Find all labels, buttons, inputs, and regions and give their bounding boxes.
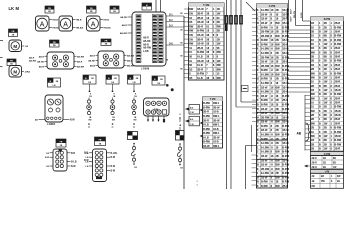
svg-text:8W: 8W bbox=[311, 51, 315, 54]
svg-text:1-B: 1-B bbox=[85, 166, 89, 168]
svg-text:BW: BW bbox=[276, 65, 281, 68]
svg-text:2B: 2B bbox=[311, 60, 314, 63]
svg-text:2B: 2B bbox=[323, 162, 326, 164]
svg-text:2B-R: 2B-R bbox=[334, 85, 340, 88]
svg-text:B-RW: B-RW bbox=[197, 72, 204, 76]
svg-text:2B: 2B bbox=[324, 143, 327, 146]
svg-text:1B-W: 1B-W bbox=[282, 73, 289, 76]
splice SP1 bbox=[128, 132, 138, 140]
svg-text:B-RW: B-RW bbox=[282, 35, 289, 38]
svg-text:1B-W: 1B-W bbox=[197, 20, 204, 24]
svg-text:BW: BW bbox=[276, 86, 281, 89]
svg-text:1B-W: 1B-W bbox=[334, 110, 341, 113]
svg-text:8-LBW: 8-LBW bbox=[261, 134, 270, 137]
relay K1 bbox=[37, 52, 84, 69]
svg-text:B-RW: B-RW bbox=[203, 141, 210, 144]
svg-text:C-PM: C-PM bbox=[269, 5, 275, 8]
svg-text:2B: 2B bbox=[276, 31, 279, 34]
svg-text:1B: 1B bbox=[217, 7, 220, 11]
svg-text:AB-RD: AB-RD bbox=[88, 59, 95, 62]
svg-text:2B: 2B bbox=[311, 118, 314, 121]
svg-text:FB: FB bbox=[53, 42, 56, 44]
svg-text:BW: BW bbox=[276, 164, 281, 167]
svg-text:RW: RW bbox=[217, 76, 222, 80]
svg-text:B-RW: B-RW bbox=[282, 108, 289, 111]
svg-text:1B-W: 1B-W bbox=[261, 129, 268, 132]
svg-text:1B-W: 1B-W bbox=[261, 121, 268, 124]
svg-text:B-RW: B-RW bbox=[334, 26, 341, 29]
svg-text:1-B: 1-B bbox=[85, 153, 89, 155]
svg-text:2B-RW: 2B-RW bbox=[261, 35, 270, 38]
svg-text:1-B: 1-B bbox=[46, 153, 50, 155]
svg-text:2B: 2B bbox=[312, 176, 315, 178]
svg-text:B-RW: B-RW bbox=[282, 151, 289, 154]
wire tick bbox=[0, 58, 3, 67]
svg-text:M: M bbox=[13, 44, 17, 49]
svg-text:B-RW: B-RW bbox=[334, 131, 341, 134]
connector X1 pins bbox=[136, 14, 163, 62]
svg-text:8B: 8B bbox=[324, 114, 327, 117]
svg-text:2B: 2B bbox=[324, 127, 327, 130]
svg-text:2B: 2B bbox=[276, 39, 279, 42]
svg-text:1W: 1W bbox=[189, 37, 193, 41]
svg-text:AB-R: AB-R bbox=[90, 54, 96, 57]
svg-text:B-RW: B-RW bbox=[197, 50, 204, 54]
svg-text:T-VM: T-VM bbox=[203, 3, 209, 7]
svg-text:B-RW: B-RW bbox=[334, 60, 341, 63]
svg-text:1W: 1W bbox=[189, 12, 193, 16]
svg-text:1B-W: 1B-W bbox=[261, 86, 268, 89]
svg-text:AB-PM: AB-PM bbox=[286, 11, 289, 18]
svg-text:2B-W: 2B-W bbox=[213, 136, 220, 139]
svg-text:8W: 8W bbox=[112, 119, 115, 121]
table T2 side labels bbox=[290, 8, 293, 21]
svg-text:BW: BW bbox=[276, 48, 281, 51]
wire bundle W2 bbox=[286, 0, 311, 30]
svg-text:HB-B: HB-B bbox=[53, 20, 59, 22]
table T1 side label bbox=[225, 24, 228, 31]
svg-text:8B: 8B bbox=[324, 139, 327, 142]
svg-text:8W: 8W bbox=[89, 119, 92, 121]
lamp chain L5 bbox=[177, 143, 183, 169]
svg-text:AB-R: AB-R bbox=[122, 24, 128, 27]
svg-text:8-LBW: 8-LBW bbox=[261, 73, 270, 76]
lamp chain L4 bbox=[131, 143, 137, 169]
svg-text:2B: 2B bbox=[217, 29, 220, 33]
svg-text:2B-R: 2B-R bbox=[197, 24, 203, 28]
svg-text:BW: BW bbox=[276, 134, 281, 137]
svg-text:B: B bbox=[319, 143, 321, 146]
svg-text:B-RW: B-RW bbox=[282, 69, 289, 72]
table T1 left stubs bbox=[184, 9, 189, 78]
svg-text:BW: BW bbox=[276, 159, 281, 162]
svg-text:8-LBW: 8-LBW bbox=[261, 91, 270, 94]
svg-text:2B-R: 2B-R bbox=[197, 16, 203, 20]
svg-text:1W: 1W bbox=[324, 97, 328, 100]
fuse box F2 bbox=[87, 6, 97, 13]
wire ladder W3 bbox=[288, 34, 311, 151]
svg-text:8-LB: 8-LB bbox=[203, 136, 209, 139]
svg-text:AB-R: AB-R bbox=[143, 37, 149, 40]
svg-text:L-BM-B: L-BM-B bbox=[47, 124, 56, 126]
svg-text:1B-W: 1B-W bbox=[334, 89, 341, 92]
svg-text:2B: 2B bbox=[276, 142, 279, 145]
svg-text:2B-R: 2B-R bbox=[334, 68, 340, 71]
svg-text:8B: 8B bbox=[324, 47, 327, 50]
svg-text:B-RW: B-RW bbox=[261, 138, 268, 141]
svg-text:2B: 2B bbox=[276, 129, 279, 132]
svg-text:B-RW: B-RW bbox=[282, 155, 289, 158]
svg-text:B-PM: B-PM bbox=[324, 18, 330, 21]
svg-text:AB-RW: AB-RW bbox=[120, 32, 127, 35]
svg-text:2B-R: 2B-R bbox=[282, 61, 288, 64]
svg-text:RW: RW bbox=[217, 24, 222, 28]
connector tag X5 bbox=[185, 105, 200, 115]
svg-text:1B: 1B bbox=[311, 47, 314, 50]
svg-text:1B: 1B bbox=[311, 89, 314, 92]
svg-text:BM-P: BM-P bbox=[291, 16, 293, 22]
svg-text:2B: 2B bbox=[311, 30, 314, 33]
svg-text:B: B bbox=[319, 30, 321, 33]
svg-text:2B: 2B bbox=[323, 167, 326, 169]
svg-text:2B-R: 2B-R bbox=[334, 97, 340, 100]
svg-text:B: B bbox=[257, 78, 259, 81]
svg-text:FB: FB bbox=[10, 61, 13, 63]
svg-text:1B-W: 1B-W bbox=[282, 116, 289, 119]
svg-text:BW: BW bbox=[276, 168, 281, 171]
svg-text:1B-W: 1B-W bbox=[282, 121, 289, 124]
svg-text:B-RW: B-RW bbox=[203, 115, 210, 118]
svg-text:1B-W: 1B-W bbox=[282, 159, 289, 162]
junction dot 2 bbox=[166, 84, 169, 87]
svg-text:2B-R: 2B-R bbox=[197, 46, 203, 50]
svg-text:B-RW: B-RW bbox=[282, 181, 289, 184]
svg-text:B-RW: B-RW bbox=[282, 168, 289, 171]
lamp chain L5 upper ticks bbox=[179, 114, 182, 131]
svg-text:B: B bbox=[319, 93, 321, 96]
svg-text:2B-RW: 2B-RW bbox=[261, 56, 270, 59]
svg-text:B-RW: B-RW bbox=[203, 102, 210, 105]
svg-text:8-LBW: 8-LBW bbox=[261, 48, 270, 51]
svg-text:FB: FB bbox=[113, 8, 116, 10]
svg-text:2B: 2B bbox=[276, 155, 279, 158]
svg-text:2B: 2B bbox=[276, 78, 279, 81]
svg-text:1-B: 1-B bbox=[88, 82, 92, 84]
wire stub W-J3 bbox=[112, 84, 114, 92]
svg-text:1W: 1W bbox=[324, 148, 328, 151]
svg-text:B-RW: B-RW bbox=[282, 164, 289, 167]
svg-text:B-RW: B-RW bbox=[282, 134, 289, 137]
svg-text:AB-RD: AB-RD bbox=[143, 40, 151, 43]
svg-text:B-RW: B-RW bbox=[334, 39, 341, 42]
svg-text:2B: 2B bbox=[276, 125, 279, 128]
svg-text:A: A bbox=[63, 21, 68, 28]
junction box J1 bbox=[48, 78, 61, 87]
svg-text:B-RW: B-RW bbox=[203, 128, 210, 131]
svg-text:A: A bbox=[40, 21, 45, 28]
connector X2 pins bbox=[147, 116, 165, 122]
svg-text:1-W: 1-W bbox=[190, 124, 194, 126]
svg-text:8W: 8W bbox=[311, 110, 315, 113]
svg-text:B-RW: B-RW bbox=[334, 93, 341, 96]
svg-text:8W: 8W bbox=[311, 135, 315, 138]
svg-text:B-B: B-B bbox=[71, 153, 75, 155]
svg-text:AB-B: AB-B bbox=[90, 64, 96, 67]
svg-text:18-B: 18-B bbox=[213, 111, 219, 114]
svg-text:2B-RW: 2B-RW bbox=[261, 116, 270, 119]
svg-text:2B-R: 2B-R bbox=[197, 67, 203, 71]
relay K2 bbox=[88, 51, 134, 68]
svg-text:1W: 1W bbox=[217, 42, 221, 46]
svg-text:1-B: 1-B bbox=[157, 83, 161, 85]
svg-text:M: M bbox=[13, 69, 17, 74]
ammeter A2 bbox=[59, 16, 83, 31]
svg-text:BW-1: BW-1 bbox=[213, 102, 220, 105]
svg-text:RW: RW bbox=[217, 63, 222, 67]
svg-text:B: B bbox=[257, 176, 259, 179]
svg-text:1B-W: 1B-W bbox=[261, 159, 268, 162]
svg-text:B-RW: B-RW bbox=[261, 181, 268, 184]
svg-text:2B: 2B bbox=[311, 127, 314, 130]
svg-text:AB-RD: AB-RD bbox=[37, 60, 44, 63]
svg-text:B-RW: B-RW bbox=[282, 172, 289, 175]
svg-text:FB: FB bbox=[12, 31, 15, 33]
svg-text:B: B bbox=[319, 72, 321, 75]
svg-text:18-B: 18-B bbox=[213, 128, 219, 131]
svg-text:1B-W: 1B-W bbox=[334, 114, 341, 117]
svg-text:B-RW: B-RW bbox=[261, 39, 268, 42]
svg-text:B-W: B-W bbox=[45, 157, 49, 159]
splice SP2 bbox=[176, 131, 185, 141]
svg-text:B-RW: B-RW bbox=[282, 176, 289, 179]
table T2 left stubs bbox=[252, 10, 257, 185]
svg-text:L-DB-M: L-DB-M bbox=[141, 68, 149, 70]
svg-text:B: B bbox=[319, 76, 321, 79]
svg-text:2B: 2B bbox=[324, 22, 327, 25]
svg-text:L-DB: L-DB bbox=[143, 51, 149, 53]
connector X1 top stubs bbox=[156, 0, 161, 12]
svg-text:1B: 1B bbox=[311, 22, 314, 25]
svg-text:2B-R: 2B-R bbox=[203, 119, 209, 122]
svg-text:RW: RW bbox=[189, 24, 194, 28]
svg-text:2B: 2B bbox=[324, 68, 327, 71]
svg-text:FB: FB bbox=[48, 8, 51, 10]
junction box J4 bbox=[128, 75, 141, 84]
svg-text:2B-R: 2B-R bbox=[334, 148, 340, 151]
connector X3 bbox=[45, 149, 89, 171]
svg-text:AB-RW: AB-RW bbox=[29, 60, 36, 63]
svg-text:8B: 8B bbox=[324, 93, 327, 96]
svg-text:B-RW: B-RW bbox=[334, 43, 341, 46]
svg-text:B: B bbox=[257, 91, 259, 94]
svg-text:B-RW: B-RW bbox=[334, 106, 341, 109]
svg-text:1B-W: 1B-W bbox=[334, 135, 341, 138]
svg-text:8-LB: 8-LB bbox=[197, 63, 203, 67]
svg-text:2B: 2B bbox=[311, 56, 314, 59]
svg-text:B-RW: B-RW bbox=[282, 65, 289, 68]
svg-text:B: B bbox=[257, 103, 259, 106]
svg-text:2B-R: 2B-R bbox=[334, 122, 340, 125]
lamp chain L2 bbox=[110, 94, 116, 128]
svg-text:HB-B: HB-B bbox=[76, 20, 82, 22]
svg-text:8B: 8B bbox=[324, 35, 327, 38]
svg-text:RW: RW bbox=[189, 29, 194, 33]
svg-text:FB: FB bbox=[99, 140, 102, 142]
title text LK M bbox=[9, 6, 20, 11]
wire stub W-J4 bbox=[133, 84, 135, 92]
svg-text:18-B: 18-B bbox=[213, 141, 219, 144]
svg-text:2B-R: 2B-R bbox=[334, 118, 340, 121]
svg-text:1B: 1B bbox=[189, 20, 192, 24]
svg-text:2B: 2B bbox=[276, 99, 279, 102]
svg-text:1-B: 1-B bbox=[46, 166, 50, 168]
svg-text:2B: 2B bbox=[324, 72, 327, 75]
label AB with brace bbox=[297, 123, 311, 141]
svg-text:AB-RW: AB-RW bbox=[143, 47, 152, 50]
svg-text:B-RW: B-RW bbox=[203, 106, 210, 109]
svg-text:B: B bbox=[257, 181, 259, 184]
svg-text:AB-RW: AB-RW bbox=[77, 55, 84, 58]
svg-text:2B: 2B bbox=[324, 60, 327, 63]
svg-text:2B: 2B bbox=[217, 20, 220, 24]
svg-text:1B-W: 1B-W bbox=[197, 42, 204, 46]
svg-text:BW: BW bbox=[276, 73, 281, 76]
svg-text:B: B bbox=[319, 148, 321, 151]
svg-text:HB-BA: HB-BA bbox=[76, 27, 83, 30]
svg-text:RW: RW bbox=[217, 50, 222, 54]
fuse box F4 bbox=[9, 29, 18, 37]
connector X1 left wires bbox=[120, 16, 132, 35]
svg-text:2B: 2B bbox=[276, 172, 279, 175]
svg-text:A: A bbox=[91, 21, 96, 28]
svg-text:2B: 2B bbox=[276, 138, 279, 141]
svg-text:B: B bbox=[257, 22, 259, 25]
svg-text:1B: 1B bbox=[189, 67, 192, 71]
svg-text:8B: 8B bbox=[324, 118, 327, 121]
svg-text:1W: 1W bbox=[324, 122, 328, 125]
svg-text:2B-R: 2B-R bbox=[282, 99, 288, 102]
svg-text:B: B bbox=[257, 39, 259, 42]
svg-text:B-RW: B-RW bbox=[282, 56, 289, 59]
svg-text:8B: 8B bbox=[324, 56, 327, 59]
lamp chain L1 bbox=[87, 94, 93, 128]
svg-text:2B: 2B bbox=[311, 148, 314, 151]
svg-text:B-RW: B-RW bbox=[261, 78, 268, 81]
svg-text:8-LBW: 8-LBW bbox=[261, 151, 270, 154]
junction box J3 bbox=[106, 75, 119, 84]
svg-text:2B-R: 2B-R bbox=[282, 91, 288, 94]
svg-text:B-RW: B-RW bbox=[334, 127, 341, 130]
svg-text:1W: 1W bbox=[217, 59, 221, 63]
svg-text:B: B bbox=[257, 108, 259, 111]
svg-text:2B-R: 2B-R bbox=[282, 138, 288, 141]
svg-text:B: B bbox=[257, 164, 259, 167]
svg-text:BW: BW bbox=[276, 22, 281, 25]
svg-text:1B-W: 1B-W bbox=[282, 112, 289, 115]
svg-text:2B: 2B bbox=[337, 181, 340, 183]
svg-text:HB-BA: HB-BA bbox=[104, 27, 111, 30]
svg-text:8-LBW: 8-LBW bbox=[261, 142, 270, 145]
connector table T4 bbox=[200, 97, 223, 148]
svg-text:1-W: 1-W bbox=[190, 112, 194, 114]
svg-text:B-LBL: B-LBL bbox=[111, 153, 118, 155]
svg-text:-DRA: -DRA bbox=[25, 71, 31, 74]
svg-text:8B: 8B bbox=[333, 162, 336, 164]
svg-text:1B: 1B bbox=[311, 64, 314, 67]
fuse box F8 bbox=[56, 139, 66, 147]
svg-text:AB-RW: AB-RW bbox=[77, 65, 84, 68]
svg-text:BW-1: BW-1 bbox=[213, 145, 220, 148]
svg-text:B-RW: B-RW bbox=[334, 143, 341, 146]
svg-text:B-RW: B-RW bbox=[282, 146, 289, 149]
svg-text:B-RW: B-RW bbox=[282, 125, 289, 128]
svg-text:1B-W: 1B-W bbox=[261, 176, 268, 179]
svg-text:1B-W: 1B-W bbox=[261, 164, 268, 167]
svg-text:8-LBW: 8-LBW bbox=[261, 9, 270, 12]
svg-text:B: B bbox=[319, 122, 321, 125]
svg-text:2B: 2B bbox=[276, 91, 279, 94]
svg-text:BW: BW bbox=[276, 176, 281, 179]
wire stub W-J2 bbox=[89, 84, 91, 92]
svg-text:2B: 2B bbox=[323, 158, 326, 160]
svg-text:BW: BW bbox=[276, 35, 281, 38]
svg-text:8-LBW: 8-LBW bbox=[261, 52, 270, 55]
junction box J2 bbox=[83, 75, 96, 84]
svg-text:2B-R: 2B-R bbox=[334, 81, 340, 84]
svg-text:1-B: 1-B bbox=[52, 85, 56, 87]
connector X1 net labels bbox=[143, 37, 152, 54]
svg-text:1B-W: 1B-W bbox=[261, 18, 268, 21]
svg-text:2B: 2B bbox=[324, 26, 327, 29]
svg-text:8W: 8W bbox=[311, 76, 315, 79]
svg-text:2B-R: 2B-R bbox=[282, 43, 288, 46]
svg-text:2B: 2B bbox=[311, 143, 314, 146]
connector table T3 bbox=[311, 17, 344, 152]
svg-text:1B-W: 1B-W bbox=[261, 61, 268, 64]
connector table T2 bbox=[257, 4, 290, 188]
svg-text:2B-R: 2B-R bbox=[197, 12, 203, 16]
svg-text:2B-R: 2B-R bbox=[312, 167, 318, 169]
svg-text:B: B bbox=[257, 116, 259, 119]
svg-text:1W: 1W bbox=[324, 89, 328, 92]
svg-text:2B: 2B bbox=[311, 85, 314, 88]
svg-text:8: 8 bbox=[179, 114, 180, 116]
svg-text:B-RW: B-RW bbox=[261, 185, 268, 188]
svg-text:1B-W: 1B-W bbox=[197, 7, 204, 11]
svg-text:2B-R: 2B-R bbox=[334, 51, 340, 54]
svg-text:AB-B: AB-B bbox=[39, 65, 45, 68]
svg-text:AB-RW: AB-RW bbox=[127, 54, 134, 57]
svg-text:2B: 2B bbox=[276, 9, 279, 12]
svg-text:B: B bbox=[319, 135, 321, 138]
svg-text:HB-B: HB-B bbox=[104, 20, 110, 22]
svg-text:B: B bbox=[319, 39, 321, 42]
svg-text:2B: 2B bbox=[324, 39, 327, 42]
svg-text:1B-W: 1B-W bbox=[282, 142, 289, 145]
junction dot bbox=[171, 88, 174, 91]
svg-text:1W: 1W bbox=[324, 43, 328, 46]
svg-text:FB: FB bbox=[105, 41, 108, 43]
fuse box F5 bbox=[50, 40, 60, 47]
svg-text:2B-RW: 2B-RW bbox=[261, 65, 270, 68]
svg-text:2B: 2B bbox=[276, 52, 279, 55]
svg-text:2B-R: 2B-R bbox=[334, 102, 340, 105]
svg-text:1-B: 1-B bbox=[85, 157, 89, 159]
fuse box F10 bbox=[142, 3, 152, 10]
svg-text:8-LB: 8-LB bbox=[203, 124, 209, 127]
svg-text:B-RW: B-RW bbox=[261, 99, 268, 102]
svg-text:1B-W: 1B-W bbox=[203, 145, 210, 148]
